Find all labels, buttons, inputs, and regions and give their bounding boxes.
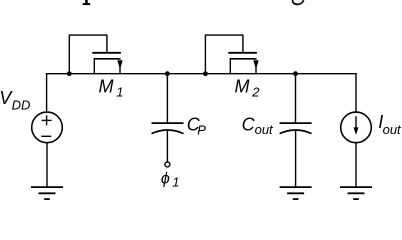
wire: CP to phi1 terminal <box>166 130 168 162</box>
text fragment: bottom bowl of letter g (cropped caption above) <box>293 0 304 4</box>
capacitor CP <box>152 123 184 134</box>
minus sign <box>41 135 51 137</box>
M1 source leg <box>93 59 95 74</box>
svg-text:M: M <box>99 76 114 96</box>
svg-text:ϕ: ϕ <box>161 170 170 187</box>
svg-text:1: 1 <box>172 175 179 190</box>
wire: Iout to ground <box>355 143 357 187</box>
ground (under VDD) <box>31 187 63 199</box>
M1 gate bar <box>92 52 121 54</box>
arrow inside pointing down <box>355 116 357 130</box>
M2 channel bar <box>230 58 257 60</box>
wire: M2 gate loop <box>205 35 243 74</box>
terminal phi1 (open circle) <box>165 162 170 167</box>
current source Iout <box>341 112 372 143</box>
svg-text:C: C <box>242 114 256 134</box>
svg-text:M: M <box>235 76 250 96</box>
svg-text:out: out <box>383 122 402 137</box>
M1 channel bar <box>94 58 121 60</box>
node A: VDD / M1 gate junction <box>67 71 72 76</box>
node C: M2 gate junction <box>203 71 208 76</box>
node B: CP junction <box>165 71 170 76</box>
voltage source VDD <box>32 112 63 143</box>
svg-text:DD: DD <box>12 97 31 112</box>
M2 gate bar <box>228 52 257 54</box>
wire: top rail <box>46 73 357 75</box>
ground (under Iout) <box>340 187 372 199</box>
svg-text:out: out <box>255 122 274 137</box>
wire: Iout riser <box>355 73 357 112</box>
svg-text:P: P <box>197 123 206 138</box>
wire: Cout to ground <box>295 130 297 187</box>
svg-text:2: 2 <box>251 84 260 99</box>
wire: VDD riser <box>46 73 48 112</box>
transistor M2 (diode-connected) <box>205 35 258 74</box>
M2 source leg <box>229 59 231 74</box>
ground (under Cout) <box>280 187 312 199</box>
M2 drain leg with arrow <box>255 68 257 75</box>
node D: Cout junction <box>293 71 298 76</box>
M1 drain leg with arrow <box>119 68 121 75</box>
capacitor Cout <box>280 123 312 134</box>
svg-text:1: 1 <box>116 84 123 99</box>
text fragment: descender of letter p (cropped caption above) <box>83 0 91 5</box>
transistor M1 (diode-connected) <box>69 35 122 74</box>
wire: CP riser <box>166 74 168 123</box>
wire: M1 gate loop <box>69 35 107 74</box>
plus sign <box>42 119 52 121</box>
wire: VDD to ground <box>46 143 48 187</box>
wire: Cout riser <box>295 74 297 123</box>
